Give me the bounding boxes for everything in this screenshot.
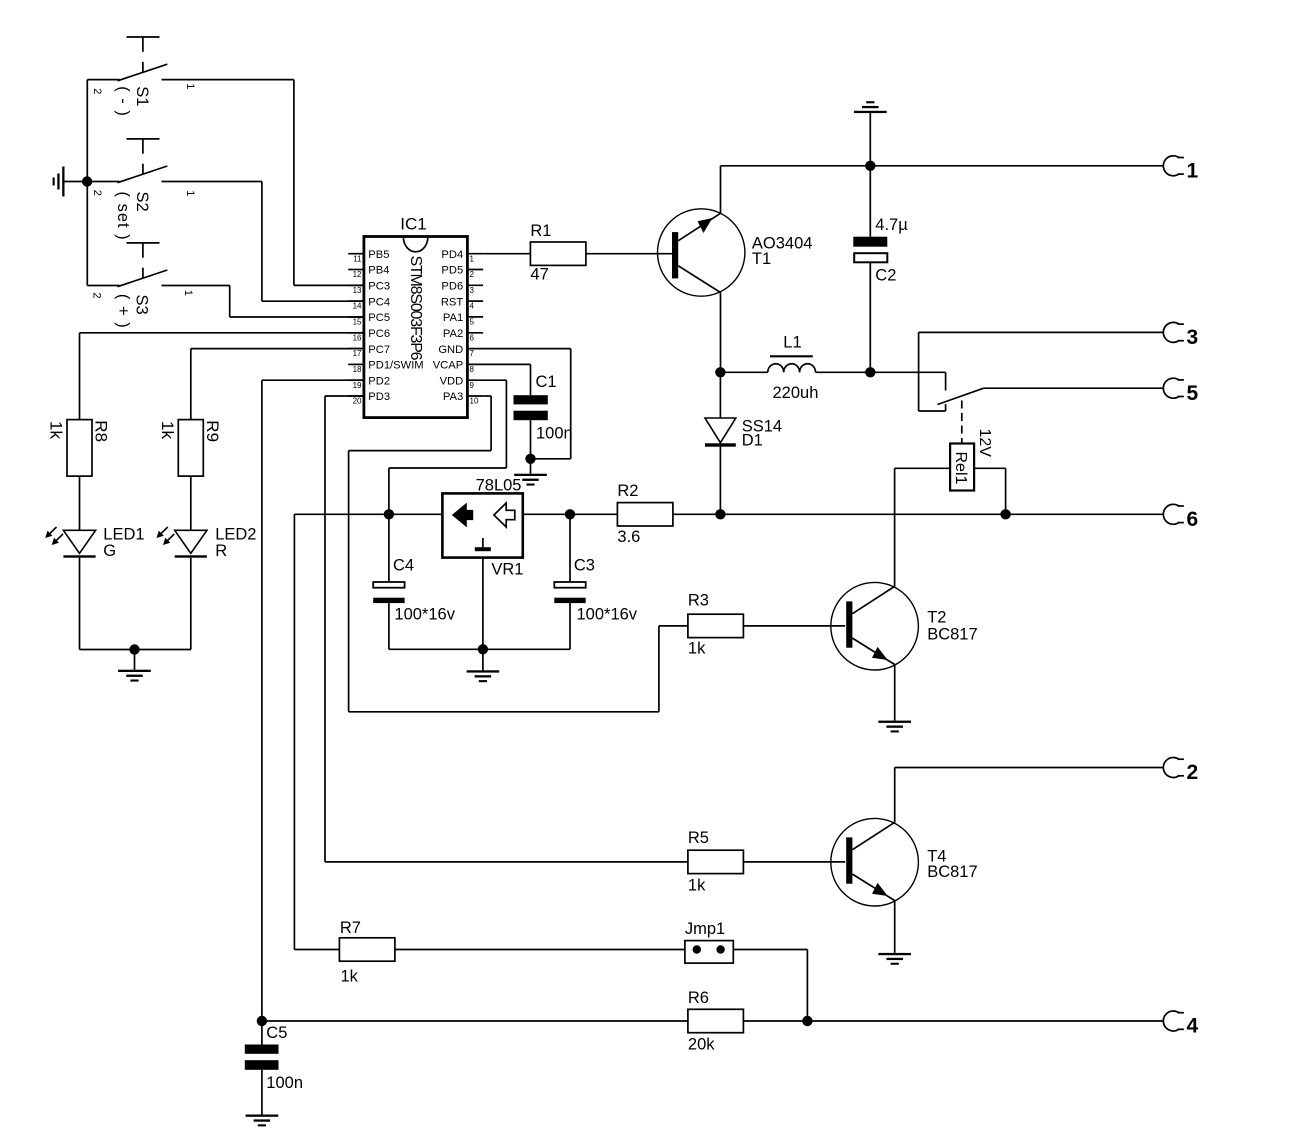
svg-text:PD1/SWIM: PD1/SWIM xyxy=(368,360,423,372)
resistor R7 1k xyxy=(339,938,395,961)
node C5 junction xyxy=(257,1016,267,1026)
svg-text:S1: S1 xyxy=(133,86,151,106)
svg-text:( + ): ( + ) xyxy=(114,294,132,329)
wire S1 to PC3 xyxy=(162,79,294,81)
svg-text:2: 2 xyxy=(90,292,102,298)
svg-text:1k: 1k xyxy=(158,421,177,439)
wire PA3 to R3 xyxy=(483,395,491,397)
wire 5V net to R7 xyxy=(293,514,295,949)
svg-text:T1: T1 xyxy=(752,250,771,268)
svg-text:1k: 1k xyxy=(688,640,706,658)
wire GND pin to ground xyxy=(483,348,571,350)
wire R5 to T4 base xyxy=(743,861,845,863)
svg-text:D1: D1 xyxy=(742,432,763,450)
node switch-ground junction xyxy=(82,176,92,186)
inductor L1 220uh xyxy=(720,371,767,373)
LED1 G xyxy=(79,476,81,530)
svg-text:5: 5 xyxy=(1187,382,1199,405)
svg-text:2: 2 xyxy=(91,88,103,94)
connector 5 xyxy=(1163,378,1179,398)
wire T4 collector to connector 2 xyxy=(894,768,896,823)
wire R1 to T1 base xyxy=(586,253,673,255)
diode D1 SS14 xyxy=(719,372,721,418)
connector 1 xyxy=(1163,156,1179,176)
svg-text:PC3: PC3 xyxy=(368,281,390,293)
wire switch common rail xyxy=(86,80,88,286)
resistor R2 xyxy=(617,503,673,526)
pin 12 PB4 xyxy=(348,269,364,271)
svg-text:L1: L1 xyxy=(783,333,801,351)
switch S1 xyxy=(127,36,160,38)
svg-text:RST: RST xyxy=(441,296,464,308)
svg-text:GND: GND xyxy=(438,344,463,356)
wire C4-C3 ground rail xyxy=(389,648,570,650)
svg-text:4: 4 xyxy=(1187,1015,1199,1038)
switch S3 xyxy=(127,242,160,244)
svg-text:VR1: VR1 xyxy=(491,560,523,578)
wire T1 emitter down xyxy=(720,293,722,373)
svg-text:15: 15 xyxy=(353,318,362,327)
svg-text:16: 16 xyxy=(353,333,362,342)
svg-text:3: 3 xyxy=(470,286,475,295)
wire R6 to connector 4 xyxy=(743,1020,1163,1022)
pin 8 VCAP xyxy=(467,363,483,365)
svg-text:Rel1: Rel1 xyxy=(952,452,969,485)
jumper Jmp1 xyxy=(685,941,733,964)
relay contact to connector 3 xyxy=(918,332,920,411)
svg-text:1: 1 xyxy=(184,190,196,196)
ground at S2 xyxy=(65,181,88,183)
svg-text:9: 9 xyxy=(470,381,475,390)
pin 20 PD3 xyxy=(348,395,364,397)
svg-text:12V: 12V xyxy=(976,429,993,458)
svg-text:47: 47 xyxy=(530,266,548,284)
wire T1 collector up xyxy=(720,166,722,214)
svg-text:19: 19 xyxy=(353,381,362,390)
svg-text:17: 17 xyxy=(353,349,362,358)
pin 2 PD5 xyxy=(467,269,483,271)
wire Rel1 right pin xyxy=(974,467,1006,469)
svg-text:78L05: 78L05 xyxy=(476,477,522,495)
svg-text:R7: R7 xyxy=(340,919,361,937)
wire to connector 5 xyxy=(984,387,1164,389)
pin 19 PD2 xyxy=(348,379,364,381)
svg-text:1k: 1k xyxy=(341,968,359,986)
resistor R8 1k xyxy=(67,420,92,477)
node D1-conn6 junction xyxy=(715,509,725,519)
wire S2 to PC4 xyxy=(162,181,262,183)
ground top right xyxy=(869,113,871,166)
transistor T2 BC817 xyxy=(831,582,919,670)
svg-text:VDD: VDD xyxy=(440,375,464,387)
connector 3 xyxy=(1163,322,1179,342)
resistor R1 xyxy=(530,242,586,265)
wire R7 to Jmp1 xyxy=(395,949,685,951)
svg-text:( - ): ( - ) xyxy=(114,86,132,117)
svg-text:PD2: PD2 xyxy=(368,375,390,387)
relay coil Rel1 12V xyxy=(950,444,974,491)
node C4-VDD junction xyxy=(384,509,394,519)
wire PD4 to R1 xyxy=(483,253,530,255)
ground below C5 xyxy=(246,1115,279,1117)
svg-text:100*16v: 100*16v xyxy=(394,606,455,624)
svg-text:1: 1 xyxy=(182,290,194,296)
svg-text:PC7: PC7 xyxy=(368,344,390,356)
pin 17 PC7 xyxy=(348,348,364,350)
pin 1 PD4 xyxy=(467,253,483,255)
wire Jmp1 to R6 net xyxy=(733,949,807,951)
svg-text:PD5: PD5 xyxy=(441,265,463,277)
wire PC7 to R9 xyxy=(191,348,364,350)
svg-text:S3: S3 xyxy=(133,295,151,315)
connector 2 xyxy=(1163,758,1179,778)
pin 6 PA2 xyxy=(467,332,483,334)
transistor T1 AO3404 xyxy=(658,209,745,296)
resistor R3 xyxy=(688,614,744,637)
svg-text:3: 3 xyxy=(1187,326,1199,349)
relay contact pole xyxy=(945,372,947,390)
resistor R5 xyxy=(688,850,744,873)
wire PC6 to R8 xyxy=(80,332,364,334)
ground below LEDs xyxy=(134,650,136,670)
ground below VR1 xyxy=(482,649,484,670)
relay actuator dashed link xyxy=(961,401,963,444)
pin 15 PC5 xyxy=(348,316,364,318)
svg-text:LED1: LED1 xyxy=(103,525,144,543)
svg-text:5: 5 xyxy=(470,318,475,327)
svg-text:C3: C3 xyxy=(574,557,595,575)
node Rel1-conn6 junction xyxy=(1000,509,1010,519)
pin 18 PD1/SWIM xyxy=(348,363,364,365)
svg-text:PC4: PC4 xyxy=(368,296,390,308)
pin 7 GND xyxy=(467,348,483,350)
svg-text:18: 18 xyxy=(353,365,362,374)
svg-text:IC1: IC1 xyxy=(400,214,426,233)
svg-text:1: 1 xyxy=(184,83,196,89)
pin 13 PC3 xyxy=(348,284,364,286)
svg-text:R6: R6 xyxy=(688,989,709,1007)
node top rail junction xyxy=(865,161,875,171)
svg-text:R: R xyxy=(215,542,227,560)
svg-text:PA1: PA1 xyxy=(443,312,463,324)
svg-text:PC5: PC5 xyxy=(368,312,390,324)
svg-text:BC817: BC817 xyxy=(927,863,977,881)
svg-text:PB5: PB5 xyxy=(368,249,389,261)
wire PD3 to R5 xyxy=(325,395,364,397)
wire 12V top rail to connector 1 xyxy=(721,165,1164,167)
svg-text:2: 2 xyxy=(1187,761,1199,784)
pin 4 RST xyxy=(467,300,483,302)
wire R2 to connector 6 xyxy=(673,513,1163,515)
svg-text:13: 13 xyxy=(353,286,362,295)
svg-text:C5: C5 xyxy=(266,1024,287,1042)
svg-text:11: 11 xyxy=(353,254,362,263)
svg-text:S2: S2 xyxy=(133,192,151,212)
svg-text:2: 2 xyxy=(470,270,475,279)
svg-text:G: G xyxy=(103,542,116,560)
pin 16 PC6 xyxy=(348,332,364,334)
wire R3 to T2 base xyxy=(743,625,845,627)
LED2 R xyxy=(190,476,192,530)
svg-text:7: 7 xyxy=(470,349,475,358)
pin 9 VDD xyxy=(467,379,483,381)
svg-text:1: 1 xyxy=(470,254,475,263)
transistor T4 BC817 xyxy=(831,818,919,906)
svg-text:PC6: PC6 xyxy=(368,328,390,340)
svg-text:Jmp1: Jmp1 xyxy=(685,920,725,938)
node L1-C2 junction xyxy=(865,367,875,377)
svg-text:C4: C4 xyxy=(393,557,414,575)
capacitor C5 100n xyxy=(261,1021,263,1045)
microcontroller IC1 STM8S003F3P6 xyxy=(364,237,468,418)
wire 5V net xyxy=(294,513,442,515)
wire PD2 down to C5 net xyxy=(262,379,364,381)
wire T2 emitter to ground xyxy=(894,665,896,721)
connector 6 xyxy=(1163,504,1179,524)
pin 10 PA3 xyxy=(467,395,483,397)
pin 14 PC4 xyxy=(348,300,364,302)
svg-text:12: 12 xyxy=(353,270,362,279)
svg-text:( set ): ( set ) xyxy=(114,192,132,241)
svg-text:T2: T2 xyxy=(927,609,946,627)
svg-text:C1: C1 xyxy=(536,373,557,391)
node C3 junction xyxy=(565,509,575,519)
pin 11 PB5 xyxy=(348,253,364,255)
svg-text:1k: 1k xyxy=(47,421,66,439)
wire VR1 out to R2 xyxy=(523,513,618,515)
svg-text:100*16v: 100*16v xyxy=(577,606,638,624)
node VR1 gnd junction xyxy=(478,644,488,654)
svg-text:PA3: PA3 xyxy=(443,391,463,403)
svg-text:100n: 100n xyxy=(266,1074,303,1092)
ground below C1 xyxy=(530,459,532,474)
svg-text:14: 14 xyxy=(353,302,362,311)
wire Rel1 left pin to T2 collector xyxy=(895,467,951,469)
svg-text:PD6: PD6 xyxy=(441,281,463,293)
capacitor C2 4.7u xyxy=(869,166,871,237)
capacitor C4 100*16v xyxy=(388,514,390,582)
svg-text:PA2: PA2 xyxy=(443,328,463,340)
svg-text:6: 6 xyxy=(470,333,475,342)
wire T4 emitter to ground xyxy=(894,901,896,953)
node Jmp1-R6 junction xyxy=(802,1016,812,1026)
node LED ground junction xyxy=(129,644,139,654)
voltage regulator VR1 78L05 xyxy=(442,493,522,557)
node C1-gnd junction xyxy=(525,454,535,464)
resistor R6 20k xyxy=(688,1009,744,1032)
svg-text:100n: 100n xyxy=(536,424,573,442)
svg-text:6: 6 xyxy=(1187,508,1199,531)
wire S3 to PC5 xyxy=(162,285,230,287)
svg-text:220uh: 220uh xyxy=(773,384,819,402)
node T1-L1-D1 junction xyxy=(715,367,725,377)
capacitor C1 100n xyxy=(483,363,530,365)
pin 3 PD6 xyxy=(467,284,483,286)
pin 5 PA1 xyxy=(467,316,483,318)
svg-text:LED2: LED2 xyxy=(215,525,256,543)
capacitor C3 100*16v xyxy=(569,514,571,582)
svg-text:BC817: BC817 xyxy=(927,626,977,644)
svg-text:VCAP: VCAP xyxy=(433,360,463,372)
connector 4 xyxy=(1163,1011,1179,1031)
svg-text:4.7µ: 4.7µ xyxy=(875,216,908,234)
relay contact arm xyxy=(938,388,984,404)
svg-text:R3: R3 xyxy=(688,592,709,610)
svg-text:4: 4 xyxy=(470,302,475,311)
svg-text:C2: C2 xyxy=(875,267,896,285)
svg-text:8: 8 xyxy=(470,365,475,374)
svg-text:20k: 20k xyxy=(688,1036,715,1054)
svg-text:STM8S003F3P6: STM8S003F3P6 xyxy=(407,256,424,361)
svg-text:R8: R8 xyxy=(92,420,111,442)
wire VDD to 5V net xyxy=(483,379,506,381)
svg-text:R9: R9 xyxy=(203,420,222,442)
svg-text:3.6: 3.6 xyxy=(617,528,640,546)
svg-text:1k: 1k xyxy=(688,877,706,895)
wire C5 net to R6 xyxy=(262,1020,688,1022)
svg-text:R2: R2 xyxy=(617,482,638,500)
svg-text:10: 10 xyxy=(470,397,479,406)
svg-text:R5: R5 xyxy=(688,829,709,847)
svg-text:1: 1 xyxy=(1187,160,1199,183)
svg-text:PD4: PD4 xyxy=(441,249,463,261)
svg-text:2: 2 xyxy=(91,190,103,196)
wire LED ground rail xyxy=(80,649,191,651)
switch S2 xyxy=(127,138,160,140)
svg-text:PD3: PD3 xyxy=(368,391,390,403)
svg-text:20: 20 xyxy=(353,397,362,406)
svg-text:PB4: PB4 xyxy=(368,265,389,277)
resistor R9 1k xyxy=(178,420,203,477)
svg-text:R1: R1 xyxy=(530,222,551,240)
